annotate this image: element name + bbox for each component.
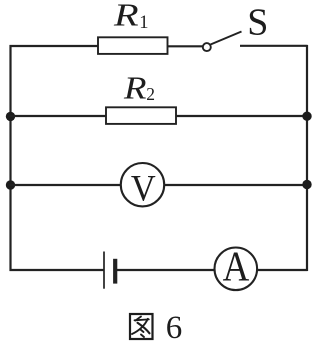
node: left junction on voltmeter row (6, 180, 15, 189)
svg-text:V: V (131, 167, 156, 208)
svg-text:6: 6 (166, 310, 183, 344)
voltmeter V (121, 163, 164, 206)
resistor R2 (106, 107, 176, 124)
wire: R2 to right rail (176, 115, 308, 117)
wire: voltmeter to right rail (164, 184, 308, 186)
battery: long thin plate (+) (103, 252, 105, 289)
node: right junction on voltmeter row (302, 180, 311, 189)
wire: R1 to switch (168, 45, 203, 47)
switch S: pivot circle (203, 43, 211, 51)
wire: left rail (9, 45, 11, 271)
ammeter A (215, 247, 258, 290)
caption: character 图 (drawn) (130, 314, 153, 339)
wire: bottom-left to battery (10, 269, 104, 271)
wire: left rail to R2 (10, 115, 107, 117)
switch S: lever arm (211, 32, 242, 45)
svg-text:R: R (123, 70, 147, 105)
svg-text:2: 2 (146, 84, 155, 104)
wire: top-left to R1 (10, 45, 99, 47)
wire: left rail to voltmeter (10, 184, 122, 186)
wire: right rail (306, 45, 308, 271)
wire: battery to ammeter (117, 269, 215, 271)
svg-text:R: R (113, 0, 139, 32)
wire: ammeter to bottom-right corner (257, 269, 308, 271)
node: left junction on R2 row (6, 112, 15, 121)
wire: switch to top-right corner (240, 45, 308, 47)
svg-text:S: S (247, 1, 268, 43)
resistor R1 (98, 37, 168, 54)
node: right junction on R2 row (302, 112, 311, 121)
svg-text:1: 1 (139, 13, 148, 33)
svg-text:A: A (223, 243, 250, 290)
battery: short thick plate (-) (113, 259, 117, 284)
